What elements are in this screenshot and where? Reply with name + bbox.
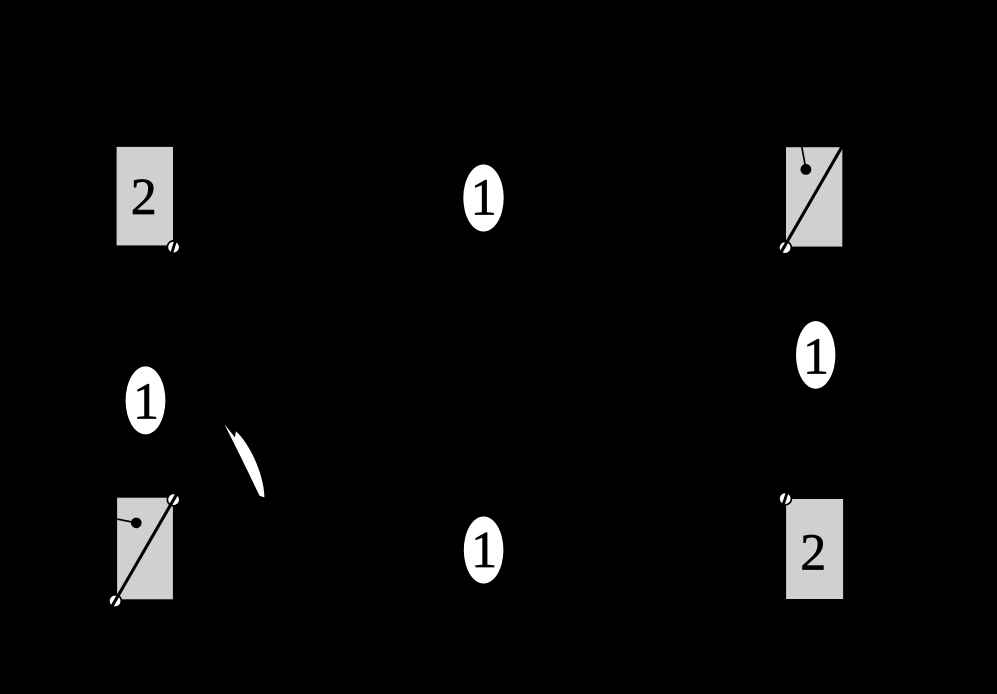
resistor R2 (bottom-right box, weight 2) (786, 499, 843, 599)
svg-text:1: 1 (471, 522, 497, 579)
wire through T1 (170, 236, 177, 258)
wire through T5 (782, 488, 789, 509)
switch S1 (top-right box) (786, 147, 842, 246)
terminal T4 (bottom-left of S2) (109, 595, 121, 607)
node N1 (top-middle, value 1) (463, 165, 503, 232)
switch S2 (bottom-left box) (117, 498, 173, 600)
switch S2 contact dot (131, 518, 142, 529)
svg-text:2: 2 (800, 525, 826, 582)
switch S2 contact wire (117, 519, 136, 523)
switch S1 contact dot (801, 164, 812, 175)
resistor R1 (top-left box, weight 2) (117, 147, 173, 246)
terminal T3 (top-right of S2) (167, 493, 179, 505)
terminal T5 (top-left of R2) (779, 488, 791, 509)
terminal T1 (bottom-right of R1) (167, 236, 179, 258)
svg-text:1: 1 (471, 169, 497, 226)
switch S1 lever (781, 145, 843, 253)
switch S2 lever (112, 492, 178, 606)
svg-text:1: 1 (803, 329, 829, 386)
switch S1 contact wire (802, 147, 806, 170)
svg-text:2: 2 (131, 169, 157, 226)
arc arrow (white crescent) (224, 424, 264, 497)
svg-text:1: 1 (133, 373, 159, 430)
terminal T2 (bottom-left of S1) (779, 241, 791, 253)
node N3 (left-middle, value 1) (126, 366, 166, 434)
node N2 (right-middle, value 1) (796, 321, 835, 389)
node N4 (bottom-middle, value 1) (464, 517, 504, 584)
